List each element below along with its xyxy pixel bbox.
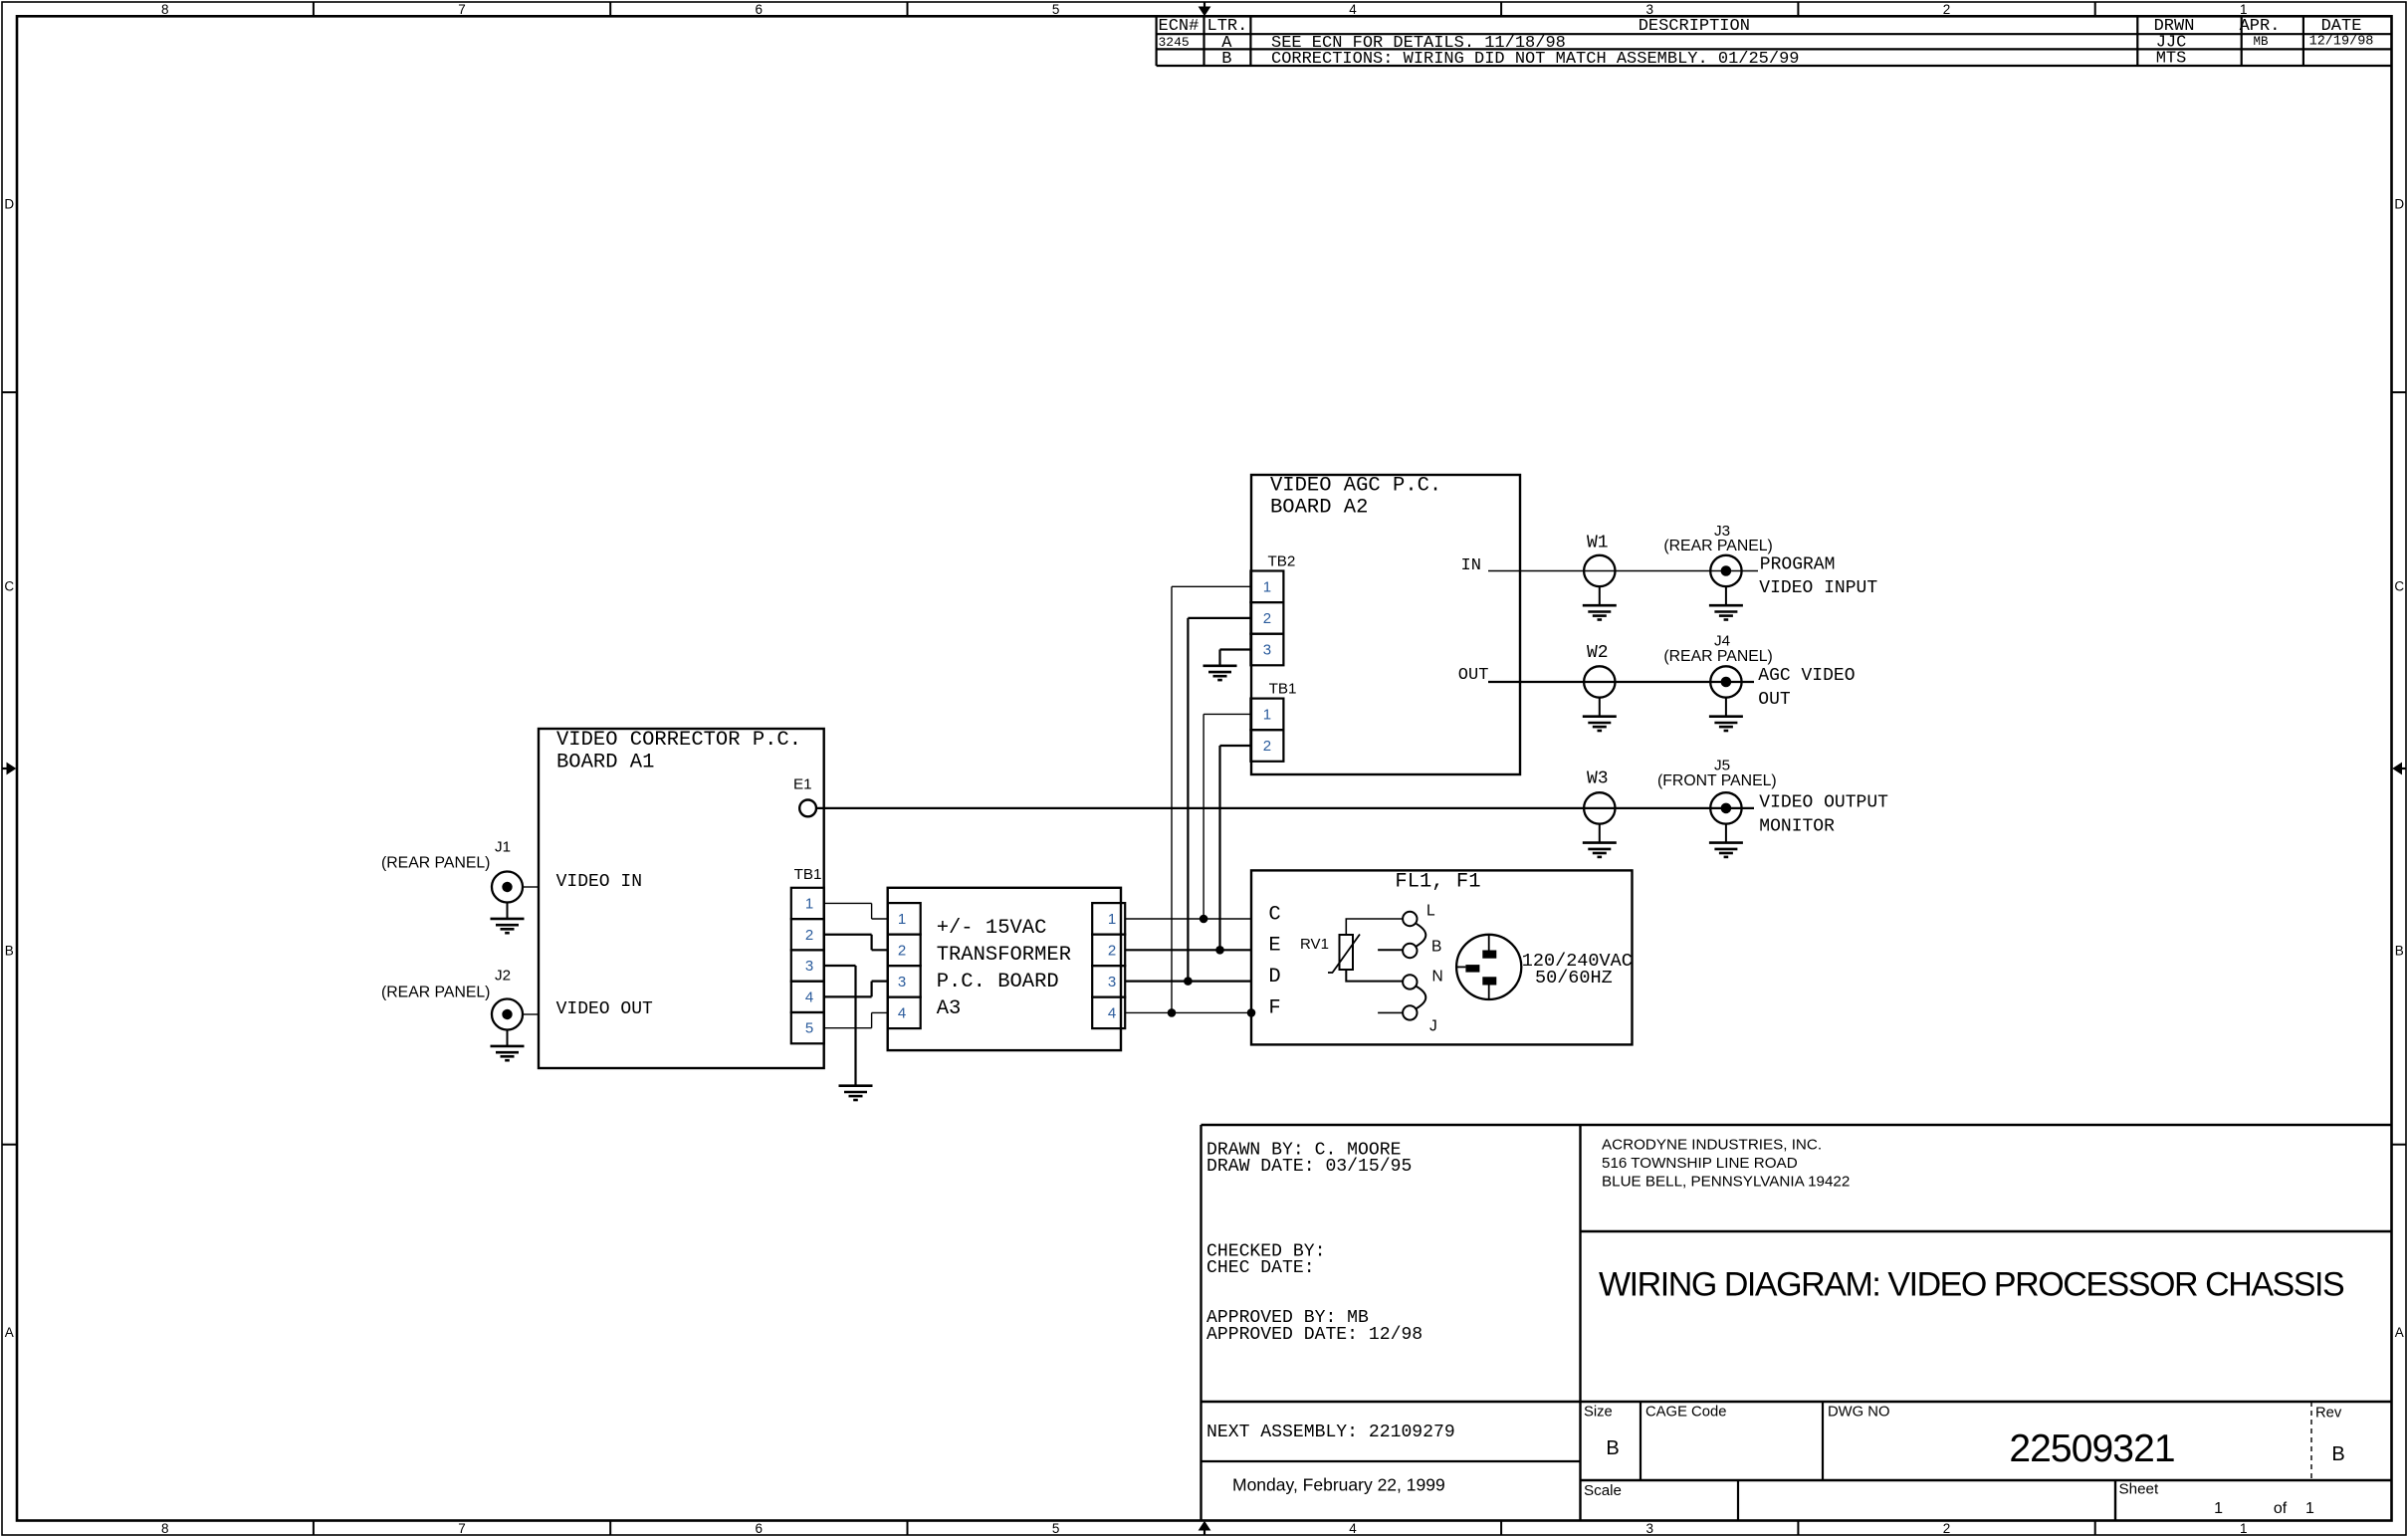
svg-text:ACRODYNE INDUSTRIES, INC.: ACRODYNE INDUSTRIES, INC.	[1602, 1137, 1822, 1154]
svg-text:Sheet: Sheet	[2119, 1481, 2159, 1498]
svg-text:TB1: TB1	[1269, 681, 1297, 698]
svg-text:C: C	[2394, 579, 2404, 594]
svg-text:W1: W1	[1587, 534, 1609, 553]
svg-text:8: 8	[161, 1521, 169, 1536]
svg-text:B: B	[2331, 1443, 2344, 1465]
svg-text:1: 1	[1263, 706, 1271, 723]
svg-text:3: 3	[1108, 974, 1116, 990]
svg-text:3: 3	[1645, 2, 1653, 17]
svg-text:1: 1	[805, 895, 813, 912]
svg-text:J4: J4	[1714, 632, 1730, 649]
svg-text:B: B	[1606, 1437, 1619, 1459]
svg-text:2: 2	[1943, 2, 1951, 17]
svg-text:CHEC DATE:: CHEC DATE:	[1206, 1258, 1315, 1278]
svg-text:22509321: 22509321	[2009, 1427, 2174, 1470]
svg-text:NEXT ASSEMBLY: 22109279: NEXT ASSEMBLY: 22109279	[1206, 1423, 1455, 1442]
svg-text:5: 5	[1052, 2, 1060, 17]
svg-text:ECN#: ECN#	[1159, 17, 1200, 36]
svg-text:4: 4	[898, 1004, 906, 1021]
svg-text:F: F	[1268, 997, 1280, 1020]
svg-text:J2: J2	[495, 968, 511, 985]
svg-text:VIDEO CORRECTOR P.C.: VIDEO CORRECTOR P.C.	[556, 729, 801, 752]
svg-text:5: 5	[805, 1020, 813, 1037]
svg-text:6: 6	[756, 1521, 764, 1536]
svg-text:1: 1	[1108, 911, 1116, 928]
svg-text:Monday, February 22, 1999: Monday, February 22, 1999	[1232, 1475, 1445, 1495]
svg-text:3: 3	[1645, 1521, 1653, 1536]
svg-text:MONITOR: MONITOR	[1759, 816, 1835, 836]
svg-text:4: 4	[1349, 2, 1357, 17]
svg-text:1: 1	[2240, 2, 2248, 17]
svg-text:L: L	[1426, 903, 1435, 920]
svg-text:(REAR PANEL): (REAR PANEL)	[381, 854, 490, 871]
svg-text:E: E	[1268, 935, 1280, 958]
svg-text:FL1, F1: FL1, F1	[1395, 871, 1480, 894]
svg-text:TRANSFORMER: TRANSFORMER	[937, 944, 1071, 967]
svg-text:CAGE Code: CAGE Code	[1645, 1405, 1726, 1421]
svg-text:A: A	[2395, 1325, 2404, 1340]
svg-text:PROGRAM: PROGRAM	[1760, 554, 1836, 574]
svg-text:W3: W3	[1587, 768, 1609, 788]
svg-text:D: D	[1268, 966, 1280, 988]
svg-text:516 TOWNSHIP LINE ROAD: 516 TOWNSHIP LINE ROAD	[1602, 1155, 1798, 1172]
svg-text:TB2: TB2	[1268, 553, 1296, 570]
svg-text:DWG NO: DWG NO	[1828, 1405, 1889, 1421]
svg-text:2: 2	[805, 927, 813, 944]
svg-text:2: 2	[898, 942, 906, 959]
svg-text:VIDEO OUTPUT: VIDEO OUTPUT	[1759, 792, 1888, 812]
svg-text:(REAR PANEL): (REAR PANEL)	[1663, 538, 1772, 554]
svg-text:Scale: Scale	[1584, 1482, 1622, 1499]
svg-text:W2: W2	[1587, 643, 1609, 663]
svg-text:6: 6	[756, 2, 764, 17]
svg-text:2: 2	[1108, 942, 1116, 959]
svg-text:DATE: DATE	[2321, 17, 2362, 36]
svg-text:2: 2	[1263, 738, 1271, 755]
svg-text:2: 2	[1943, 1521, 1951, 1536]
svg-text:of: of	[2274, 1500, 2288, 1517]
svg-text:VIDEO OUT: VIDEO OUT	[556, 999, 653, 1019]
svg-text:Size: Size	[1584, 1405, 1613, 1421]
svg-text:(REAR PANEL): (REAR PANEL)	[381, 985, 490, 1001]
svg-text:3245: 3245	[1159, 35, 1190, 50]
svg-text:(REAR PANEL): (REAR PANEL)	[1663, 648, 1772, 665]
svg-text:CORRECTIONS: WIRING DID NOT MA: CORRECTIONS: WIRING DID NOT MATCH ASSEMB…	[1271, 50, 1800, 69]
svg-text:B: B	[1431, 939, 1441, 956]
svg-text:OUT: OUT	[1758, 690, 1791, 710]
svg-text:B: B	[1221, 50, 1231, 69]
svg-text:BOARD A1: BOARD A1	[556, 751, 654, 773]
svg-text:VIDEO AGC P.C.: VIDEO AGC P.C.	[1270, 474, 1441, 497]
svg-text:BOARD A2: BOARD A2	[1270, 496, 1368, 519]
svg-text:D: D	[2394, 197, 2404, 212]
svg-text:APPROVED DATE: 12/98: APPROVED DATE: 12/98	[1206, 1325, 1423, 1345]
svg-text:E1: E1	[793, 775, 812, 792]
svg-text:2: 2	[1263, 610, 1271, 627]
svg-text:1: 1	[898, 911, 906, 928]
svg-text:D: D	[4, 197, 14, 212]
svg-text:Rev: Rev	[2315, 1406, 2342, 1422]
svg-text:WIRING DIAGRAM: VIDEO PROCESSO: WIRING DIAGRAM: VIDEO PROCESSOR CHASSIS	[1599, 1266, 2344, 1304]
svg-text:4: 4	[805, 988, 813, 1005]
svg-text:B: B	[2395, 944, 2404, 959]
svg-text:MTS: MTS	[2156, 49, 2187, 68]
svg-text:DESCRIPTION: DESCRIPTION	[1639, 17, 1750, 36]
svg-text:J1: J1	[495, 839, 511, 856]
svg-text:B: B	[5, 944, 14, 959]
svg-text:RV1: RV1	[1300, 936, 1329, 953]
svg-text:APR.: APR.	[2240, 17, 2281, 36]
svg-text:1: 1	[2214, 1500, 2223, 1517]
svg-text:A3: A3	[937, 997, 962, 1020]
svg-text:1: 1	[2305, 1500, 2314, 1517]
svg-text:12/19/98: 12/19/98	[2309, 35, 2374, 50]
svg-text:3: 3	[898, 974, 906, 990]
svg-text:C: C	[1268, 903, 1280, 926]
svg-text:OUT: OUT	[1458, 666, 1489, 685]
svg-text:1: 1	[2240, 1521, 2248, 1536]
svg-text:7: 7	[458, 1521, 466, 1536]
svg-text:DRAW DATE: 03/15/95: DRAW DATE: 03/15/95	[1206, 1157, 1412, 1177]
svg-text:N: N	[1432, 969, 1443, 986]
svg-text:(FRONT PANEL): (FRONT PANEL)	[1657, 772, 1777, 789]
svg-text:IN: IN	[1461, 556, 1481, 575]
svg-text:P.C. BOARD: P.C. BOARD	[937, 971, 1059, 993]
svg-text:TB1: TB1	[794, 866, 822, 883]
svg-text:5: 5	[1052, 1521, 1060, 1536]
svg-text:4: 4	[1108, 1004, 1116, 1021]
svg-text:7: 7	[458, 2, 466, 17]
svg-text:A: A	[5, 1325, 14, 1340]
svg-text:MB: MB	[2253, 35, 2269, 49]
svg-text:J: J	[1429, 1018, 1437, 1035]
svg-text:+/- 15VAC: +/- 15VAC	[937, 917, 1047, 940]
svg-text:3: 3	[805, 958, 813, 975]
svg-text:8: 8	[161, 2, 169, 17]
svg-text:1: 1	[1263, 578, 1271, 595]
svg-text:4: 4	[1349, 1521, 1357, 1536]
svg-text:C: C	[4, 579, 14, 594]
svg-text:3: 3	[1263, 642, 1271, 659]
svg-text:BLUE BELL, PENNSYLVANIA 19422: BLUE BELL, PENNSYLVANIA 19422	[1602, 1174, 1850, 1191]
svg-text:VIDEO IN: VIDEO IN	[556, 872, 642, 892]
svg-text:VIDEO INPUT: VIDEO INPUT	[1759, 578, 1877, 598]
svg-text:AGC VIDEO: AGC VIDEO	[1758, 666, 1855, 686]
svg-text:50/60HZ: 50/60HZ	[1535, 968, 1613, 988]
